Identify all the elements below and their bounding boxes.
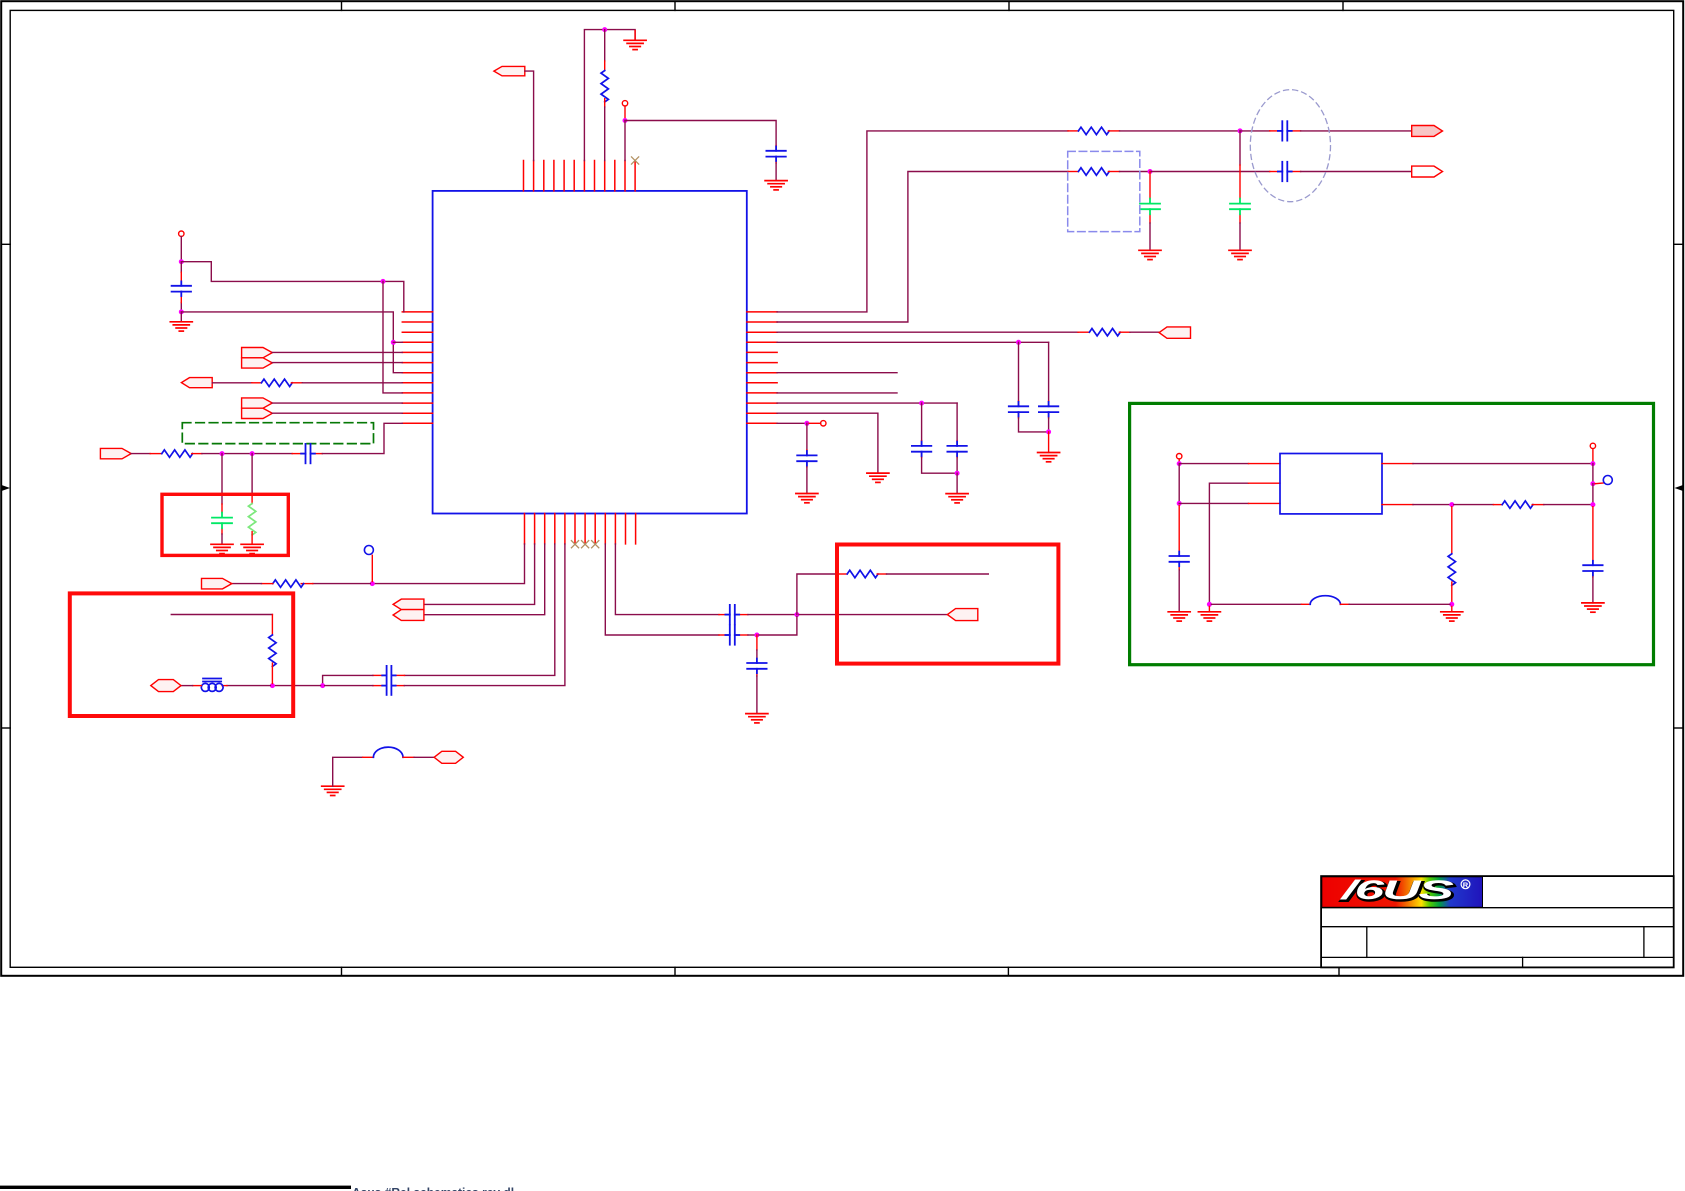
wire junction down to C9 [921, 403, 923, 441]
hex terminal T2 [434, 751, 463, 763]
wire IC row12 [777, 422, 807, 424]
ground bottom-left [322, 786, 344, 795]
node A open terminal circle [179, 231, 184, 236]
wire junction to C4 [1150, 171, 1270, 173]
wire block out1 to output column [1413, 463, 1593, 465]
ground row11 [867, 473, 889, 482]
resistor R1 lead top [604, 61, 606, 71]
capacitor C13 lead bottom [221, 528, 223, 534]
junction caps join [1046, 429, 1051, 434]
wire P8 to IC row10 [272, 402, 402, 404]
wire top rail to R1 [604, 30, 606, 61]
junction net RC b [250, 451, 255, 456]
capacitor C5 lead bottom [1149, 214, 1151, 223]
resistor R8 [273, 580, 304, 587]
wire row4 tap stub [393, 341, 402, 343]
junction wire A branch [381, 279, 386, 284]
bottom edge black bar [0, 1186, 351, 1189]
resistor R4 [1089, 329, 1120, 336]
wire L2 to hex terminal [414, 756, 434, 758]
wire R11 to output column [1544, 504, 1593, 506]
port P13 arrow lower [393, 610, 424, 621]
title block outline [1321, 876, 1674, 967]
capacitor C8 [1039, 402, 1058, 417]
title block row line 3 [1321, 956, 1674, 958]
junction reg input b [1177, 501, 1182, 506]
ground below C11 [796, 494, 818, 503]
wire C13 to ground [221, 534, 223, 544]
lead junction b to sense circle [1595, 482, 1603, 485]
port P14 arrow [947, 609, 977, 621]
resistor R9 lead top [271, 615, 273, 635]
wire IC row10 [777, 402, 957, 404]
wire IC bottom pin3 net [424, 544, 545, 615]
capacitor C1 [172, 281, 191, 296]
resistor R7 lead bottom [251, 532, 253, 545]
wire C5 to ground [1149, 223, 1151, 250]
capacitor C2 lead top [775, 146, 777, 151]
resistor R9 [269, 635, 276, 666]
ground top rail [634, 31, 636, 41]
junction output c [1590, 502, 1595, 507]
resistor R11 [1502, 501, 1533, 508]
ground below C6 [1229, 250, 1251, 259]
block out pin2 lead [1382, 504, 1413, 506]
wire junction to C3 [1240, 130, 1270, 132]
port P8 arrow upper [242, 398, 273, 408]
lead junction to circle [371, 555, 373, 581]
port P4 arrow [1159, 327, 1190, 338]
capacitor C19 [1583, 561, 1602, 576]
IC U1 right pins [747, 312, 777, 423]
resistor R7 (green) [248, 504, 255, 535]
capacitor C7 lead bottom [1018, 412, 1020, 418]
resistor R3 [1078, 168, 1109, 175]
wire mid junction to port P14 [799, 614, 947, 616]
port P2 arrow [1412, 126, 1443, 137]
port P1 arrow [494, 66, 525, 75]
blue circle terminal [364, 546, 373, 555]
capacitor C5 lead top [1149, 172, 1151, 199]
ground below C2 [765, 181, 787, 190]
lead join to ground [1048, 432, 1050, 453]
zone tick bottom 4 [1338, 967, 1340, 976]
wire step junction to box B [275, 685, 321, 687]
capacitor C5 (green) [1140, 199, 1160, 215]
capacitor C18 lead bottom [1178, 562, 1180, 570]
lead junction to ground [1208, 606, 1210, 611]
capacitor C8 lead bottom [1048, 412, 1050, 418]
wire C15 to junction [748, 614, 795, 616]
wire IC row1 right up to rail 1 [777, 131, 1068, 312]
wire input column [1178, 464, 1180, 504]
capacitor C15 lead right [737, 614, 748, 616]
capacitor C3 lead left [1270, 130, 1282, 132]
capacitor C16 [725, 625, 739, 644]
capacitor C4 lead right [1288, 171, 1301, 173]
capacitor C9 lead top [921, 441, 923, 446]
wire row4 down to C8 [1048, 342, 1050, 401]
inductor L2 lead left [363, 756, 374, 758]
ground below C9 C10 [946, 494, 968, 503]
open net stub in box B [171, 614, 272, 616]
zone tick bottom 1 [341, 967, 343, 976]
capacitor C7 lead top [1018, 401, 1020, 406]
port P6 arrow lower [242, 358, 273, 368]
port P7 arrow [181, 378, 212, 388]
wire top rail [584, 30, 635, 161]
zone tick top 1 [341, 1, 343, 10]
no-connect X bottom pin8 [592, 541, 599, 548]
wire C10 to junction [956, 458, 958, 474]
IC U1 bottom pins [525, 514, 636, 544]
wire junction to R11 [1454, 504, 1494, 506]
ground below C19 [1582, 603, 1604, 612]
capacitor C11 [797, 451, 816, 466]
capacitor C8 lead top [1048, 401, 1050, 406]
ground below C18 [1168, 612, 1190, 621]
resistor R7 lead top [251, 495, 253, 504]
wire junction b down [251, 454, 253, 495]
inductor L3 lead right [1340, 603, 1349, 605]
capacitor C10 lead top [956, 441, 958, 446]
wire IC row9 stub [777, 392, 897, 394]
highlight box A red [162, 494, 288, 555]
capacitor C14 leads lower [396, 685, 405, 687]
capacitor C11 lead top [806, 450, 808, 455]
hex terminal T1 [151, 680, 181, 692]
resistor R1 [601, 71, 608, 102]
capacitor C16 lead left [719, 634, 728, 636]
wire output column upper [1592, 464, 1594, 484]
port P10 arrow [100, 448, 131, 458]
junction step [320, 683, 325, 688]
capacitor C4 lead left [1270, 171, 1282, 173]
open circle regulator input [1177, 454, 1182, 459]
wire IC bottom pin9 net [605, 544, 719, 635]
IC U1 top pins [524, 161, 636, 191]
capacitor C6 lead top [1239, 165, 1241, 199]
open circle output top [1590, 443, 1595, 448]
ferrite bead lead left [193, 685, 202, 687]
resistor R10 [847, 570, 878, 577]
junction top rail [602, 27, 607, 32]
wire C12 to IC row12 [322, 423, 402, 453]
capacitor C1 lead bottom [180, 303, 182, 310]
resistor R9 lead bottom [271, 663, 273, 683]
capacitor C17 lead bottom [756, 669, 758, 676]
resistor R3 lead left [1068, 171, 1078, 173]
wire C4 to port P3 [1301, 171, 1412, 173]
wire R3 to junction [1120, 171, 1151, 173]
resistor R11 lead right [1532, 504, 1544, 506]
capacitor C3 [1278, 121, 1292, 140]
resistor R5 lead left [252, 382, 262, 384]
junction output a [1590, 461, 1595, 466]
capacitor C6 lead bottom [1239, 214, 1241, 223]
lead circle to junction [624, 106, 626, 118]
resistor R2 lead left [1068, 130, 1078, 132]
port P3 arrow [1412, 166, 1443, 177]
resistor R4 lead right [1119, 331, 1130, 333]
capacitor C13 lead top [221, 504, 223, 513]
IC U1 body [433, 191, 747, 514]
junction pin11 [623, 118, 628, 123]
capacitor C14 shared plates [382, 666, 395, 695]
capacitor C2 lead bottom [775, 157, 777, 163]
dashed highlight box blue [1068, 151, 1140, 231]
zone tick top 3 [1008, 1, 1010, 10]
capacitor C9 [912, 442, 931, 457]
resistor R12 lead bottom [1451, 582, 1453, 602]
resistor R12 lead top [1451, 507, 1453, 554]
ground below C17 [746, 714, 768, 723]
wire IC bottom pin2 net [424, 544, 535, 605]
wire C2 to ground [775, 163, 777, 181]
capacitor C15 [725, 605, 739, 624]
lead circle to junction out [1592, 449, 1594, 462]
open circle row12 [821, 421, 826, 426]
IC U1 left pins [402, 312, 432, 423]
lead join2 to ground [956, 473, 958, 493]
wire lower net up to mid junction [759, 617, 797, 635]
junction rail2 [1148, 169, 1153, 174]
capacitor C6 (green) [1230, 199, 1250, 215]
wire R10 open end [887, 573, 989, 575]
resistor R10 lead right [877, 573, 886, 575]
junction node A [179, 259, 184, 264]
title block divider a [1366, 927, 1368, 958]
svg-text:/6US: /6US [1340, 875, 1454, 905]
resistor R10 lead left [838, 573, 847, 575]
junction rail1 [1238, 128, 1243, 133]
capacitor C11 lead bottom [806, 461, 808, 467]
wire input b to block pin3 [1179, 502, 1248, 504]
block out pin1 lead [1382, 463, 1413, 465]
zone tick bottom 2 [674, 967, 676, 976]
wire junction a down [221, 454, 223, 504]
capacitor C17 lead top [756, 650, 758, 658]
capacitor C17 [747, 659, 766, 674]
wire C11 to ground [806, 467, 808, 494]
wire bead to junction [227, 685, 270, 687]
capacitor C18 [1170, 552, 1189, 567]
wire P1 to IC top pin2 [525, 71, 534, 160]
wire P7 to R5 [212, 382, 252, 384]
wire P6 to IC row6 [272, 362, 402, 364]
title block row line 1 [1321, 907, 1674, 909]
resistor R5 [261, 379, 292, 386]
capacitor C12 [301, 444, 315, 463]
resistor R2 [1078, 127, 1109, 134]
title block divider b [1643, 927, 1645, 958]
wire input to block pin1 [1179, 463, 1248, 465]
wire IC row7 stub [777, 372, 897, 374]
wire P9 to IC row11 [272, 412, 402, 414]
wire R6 to C12 [202, 453, 292, 455]
wire P5 to IC row5 [272, 351, 402, 353]
capacitor C19 lead top [1592, 507, 1594, 561]
junction below C1 [179, 309, 184, 314]
port P11 arrow [202, 578, 232, 589]
svg-text:Asus #Rel schematics rev dl: Asus #Rel schematics rev dl [352, 1186, 514, 1191]
capacitor C9 lead bottom [921, 452, 923, 458]
wire C18 to ground [1178, 570, 1180, 612]
port P5 arrow upper [242, 348, 273, 358]
junction net RC a [220, 451, 225, 456]
no-connect X bottom pin6 [571, 541, 578, 548]
junction row12 [804, 421, 809, 426]
inductor L2 lead right [403, 756, 414, 758]
ground below R7 [241, 544, 263, 553]
wire IC row2 right up to rail 2 [777, 172, 1068, 323]
resistor R5 lead right [291, 382, 302, 384]
wire node A to IC row1 [181, 262, 403, 312]
dashed highlight ellipse [1250, 90, 1330, 202]
wire IC row4 [777, 341, 1049, 343]
wire gnd rail [1211, 603, 1301, 605]
capacitor C14 leads upper [396, 674, 405, 676]
wire junction down to IC top pin11 [624, 121, 626, 161]
resistor R12 [1448, 554, 1455, 585]
wire IC bottom pin5 to lower AC net [404, 544, 565, 686]
lead junction to ground right [1451, 606, 1453, 611]
capacitor C16 lead right [737, 634, 748, 636]
no-connect X bottom pin7 [582, 541, 589, 548]
title block divider c [1522, 957, 1524, 967]
lead circle to junction [1178, 459, 1180, 462]
wire junction to C2 [625, 121, 776, 146]
wire IC bottom pin4 to upper AC net [405, 544, 555, 676]
wire C8 to junction [1048, 418, 1050, 432]
junction lower net [754, 633, 759, 638]
junction row4 tap [391, 340, 396, 345]
junction gnd rail right [1449, 602, 1454, 607]
wire junction lower down to C17 [756, 635, 758, 650]
ferrite bead lead right [222, 685, 227, 687]
junction mid net [794, 612, 799, 617]
junction caps join 2 [955, 471, 960, 476]
resistor R4 lead left [1078, 331, 1089, 333]
border arrow left [2, 485, 11, 491]
highlight box green [1130, 403, 1654, 664]
zone tick bottom 3 [1007, 967, 1009, 976]
wire R4 to port P4 [1130, 331, 1159, 333]
junction reg input a [1177, 461, 1182, 466]
capacitor C10 [947, 442, 966, 457]
wire row12 down to C11 [806, 423, 808, 450]
capacitor C13 (green) [212, 513, 232, 529]
ground below C5 [1139, 250, 1161, 259]
ground below caps [1038, 453, 1060, 462]
resistor R3 lead right [1108, 171, 1119, 173]
wire branch to IC row9 [383, 281, 402, 393]
junction gnd rail left [1207, 602, 1212, 607]
lead junction to open circle [809, 422, 821, 424]
ferrite bead L1 [201, 679, 223, 692]
wire ground to L2 [333, 757, 363, 786]
block pin2 lead [1249, 482, 1281, 484]
open circle above pin11 [622, 101, 627, 106]
capacitor C18 lead top [1178, 506, 1180, 552]
wire C19 to ground [1592, 577, 1594, 603]
capacitor C12 lead right [311, 453, 323, 455]
border arrow right [1675, 485, 1684, 491]
wire IC row11 to ground [777, 413, 878, 473]
wire mid junction up to R10 [797, 574, 839, 615]
wire C9 bottom join [922, 458, 958, 474]
resistor R6 [162, 450, 193, 457]
wire C3 to port P2 [1301, 130, 1412, 132]
junction feedback [1449, 502, 1454, 507]
dashed highlight box green [182, 423, 373, 444]
wire out2 to junction [1413, 504, 1450, 506]
wire block pin2 branch [1209, 483, 1248, 604]
capacitor C15 lead left [719, 614, 728, 616]
zone tick right 2 [1674, 727, 1683, 729]
capacitor C19 lead bottom [1592, 571, 1594, 577]
wire C17 to ground [756, 676, 758, 714]
wire output column lower [1592, 484, 1594, 505]
junction row4 [1016, 340, 1021, 345]
wire junction to R8 [313, 583, 371, 585]
zone tick left 1 [1, 243, 10, 245]
wire IC bottom pin10 net [615, 544, 719, 615]
capacitor C10 lead bottom [956, 452, 958, 458]
ground below C1 [180, 312, 182, 322]
wire junction rail1 down [1239, 131, 1241, 165]
zone tick top 4 [1342, 1, 1344, 10]
title block row line 2 [1321, 926, 1674, 928]
junction bead net [270, 683, 275, 688]
resistor R2 lead right [1108, 130, 1119, 132]
wire C6 to ground [1239, 223, 1241, 250]
junction bottom pin1 net [370, 581, 375, 586]
wire IC bottom pin1 net [374, 544, 524, 584]
wire C16 to junction lower [748, 634, 755, 636]
capacitor C2 [766, 146, 785, 161]
inductor L3 lead left [1301, 603, 1310, 605]
blue circle sense terminal [1603, 476, 1612, 485]
zone tick top 2 [674, 1, 676, 10]
port P12 arrow upper [393, 599, 424, 610]
ASUS logo band [1322, 875, 1483, 907]
sheet inner border [10, 10, 1674, 967]
wire R5 to IC row8 [302, 382, 402, 384]
junction output b [1590, 481, 1595, 486]
wire junction down to C7 [1018, 342, 1020, 401]
resistor R1 lead bottom [604, 99, 606, 107]
resistor R8 lead left [261, 583, 272, 585]
resistor R6 lead right [192, 453, 202, 455]
inductor L3 [1310, 596, 1340, 605]
svg-text:R: R [1463, 880, 1469, 889]
resistor R11 lead left [1493, 504, 1502, 506]
wire R8 to port P11 [232, 583, 262, 585]
no-connect X top pin12 [632, 157, 639, 164]
highlight box C red [837, 545, 1058, 664]
wire C14 to step junction [323, 675, 373, 683]
wire node A lead [180, 237, 182, 260]
capacitor C1 lead top [180, 262, 182, 273]
port P9 arrow lower [242, 408, 273, 418]
wire C1 bottom to IC row7 [181, 312, 402, 373]
wire bead to hex terminal [181, 685, 193, 687]
wire R1 to IC top pin9 [604, 107, 606, 161]
block pin1 lead [1249, 463, 1281, 465]
capacitor C7 [1009, 402, 1028, 417]
highlight box B red [70, 593, 293, 716]
